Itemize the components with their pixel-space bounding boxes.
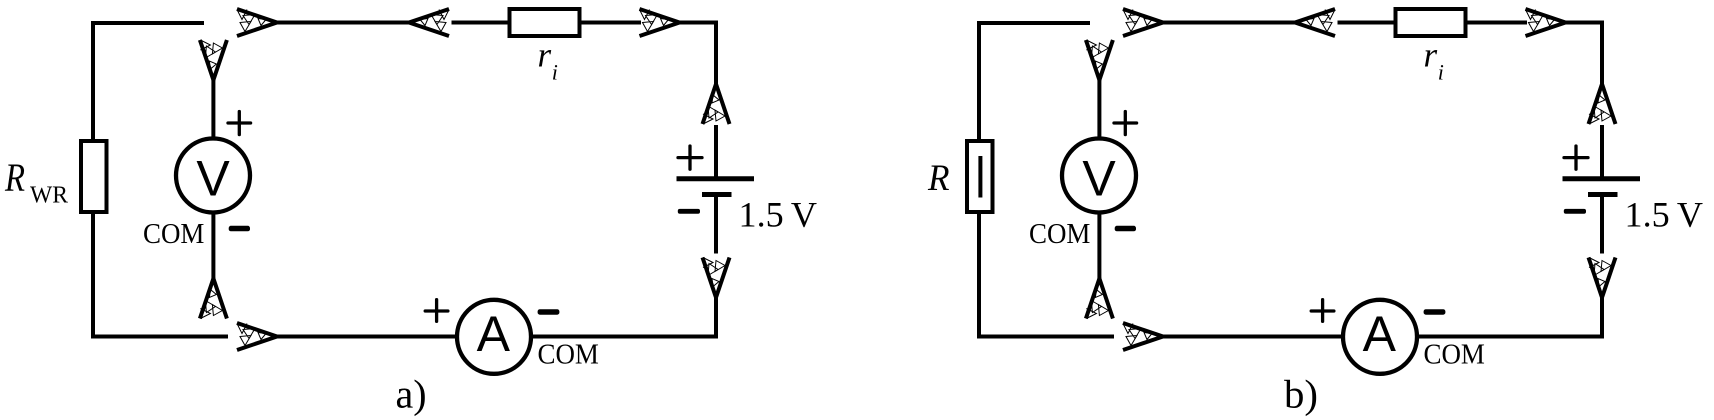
voltmeter V (a) <box>176 139 250 213</box>
arrow plug on top wire (leftward) (b) <box>1295 9 1335 36</box>
arrow plug right vertical (upward) (b) <box>1589 84 1616 124</box>
wire top segment before r_i (a) <box>452 21 510 25</box>
voltmeter minus terminal sign (b) <box>1115 226 1136 232</box>
wire top middle segment (b) <box>1163 21 1295 25</box>
svg-text:1.5 V: 1.5 V <box>1625 194 1704 234</box>
ammeter plus terminal sign (a) <box>425 300 448 322</box>
arrow plug on bottom wire (rightward) (b) <box>1123 323 1163 350</box>
battery plus sign (a) <box>678 146 702 169</box>
ammeter A (a) <box>457 300 531 374</box>
ammeter minus terminal sign (a) <box>538 309 560 315</box>
svg-text:A: A <box>477 306 511 362</box>
svg-text:V: V <box>196 151 230 207</box>
battery negative plate (short) (a) <box>702 192 732 197</box>
battery positive plate (long) (a) <box>677 176 755 181</box>
resistor r_i (internal resistance) (b) <box>1396 9 1466 36</box>
arrow plug right vertical (downward) (a) <box>703 258 730 298</box>
arrow plug right vertical (upward) (a) <box>703 84 730 124</box>
svg-text:r: r <box>538 36 552 75</box>
wire r_i to arrow (a) <box>581 21 641 25</box>
wire top-left segment + left vertical (upper) (b) <box>979 23 1090 142</box>
wire right vertical lower + bottom-right corner (a) <box>531 298 716 337</box>
ammeter A (b) <box>1343 300 1417 374</box>
svg-text:r: r <box>1424 36 1438 75</box>
svg-text:WR: WR <box>30 183 68 209</box>
wire right vertical to battery + (b) <box>1600 125 1604 179</box>
wire battery - downward (a) <box>714 195 718 254</box>
arrow plug top-right (rightward) (a) <box>640 9 680 36</box>
voltmeter plus terminal sign (a) <box>228 112 251 135</box>
wire voltmeter branch lower (a) <box>211 213 215 279</box>
arrow plug on top wire (rightward) (a) <box>237 9 277 36</box>
wire top middle segment (a) <box>277 21 409 25</box>
slider bar inside resistor R (b) <box>978 156 982 198</box>
svg-text:b): b) <box>1284 371 1318 416</box>
svg-text:COM: COM <box>143 219 204 250</box>
ammeter plus terminal sign (b) <box>1311 300 1334 322</box>
wire r_i to arrow (b) <box>1467 21 1527 25</box>
svg-text:COM: COM <box>1424 340 1485 371</box>
battery negative plate (short) (b) <box>1588 192 1618 197</box>
resistor R left branch (b) <box>967 141 993 212</box>
wire voltmeter branch upper (a) <box>211 80 215 140</box>
resistor r_i (internal resistance) (a) <box>510 9 580 36</box>
svg-text:R: R <box>4 155 25 200</box>
arrow plug on top wire (rightward) (b) <box>1123 9 1163 36</box>
wire top-right corner (a) <box>680 23 717 85</box>
wire bottom middle segment (a) <box>277 335 459 339</box>
svg-text:i: i <box>552 59 558 84</box>
voltmeter V (b) <box>1062 139 1136 213</box>
voltmeter plus terminal sign (b) <box>1114 112 1137 135</box>
wire bottom middle segment (b) <box>1163 335 1345 339</box>
battery minus sign (b) <box>1564 209 1586 214</box>
wire voltmeter branch upper (b) <box>1097 80 1101 140</box>
resistor R left branch (a) <box>81 141 107 212</box>
svg-text:COM: COM <box>1029 219 1090 250</box>
svg-text:a): a) <box>396 371 427 416</box>
wire voltmeter branch lower (b) <box>1097 213 1101 279</box>
wire top-right corner (b) <box>1566 23 1603 85</box>
battery positive plate (long) (b) <box>1563 176 1641 181</box>
svg-text:R: R <box>927 158 949 199</box>
arrow plug voltmeter branch top (downward) (a) <box>200 40 227 80</box>
battery minus sign (a) <box>678 209 700 214</box>
arrow plug voltmeter branch bottom (upward) (b) <box>1086 279 1113 319</box>
ammeter minus terminal sign (b) <box>1424 309 1446 315</box>
wire left vertical (lower) + bottom-left segment (b) <box>979 210 1114 337</box>
wire top-left segment + left vertical (upper) (a) <box>93 23 204 142</box>
svg-text:1.5 V: 1.5 V <box>739 194 818 234</box>
svg-text:V: V <box>1082 151 1116 207</box>
arrow plug voltmeter branch top (downward) (b) <box>1086 40 1113 80</box>
voltmeter minus terminal sign (a) <box>229 226 250 232</box>
svg-text:A: A <box>1363 306 1397 362</box>
wire left vertical (lower) + bottom-left segment (a) <box>93 210 228 337</box>
arrow plug on bottom wire (rightward) (a) <box>237 323 277 350</box>
svg-text:COM: COM <box>538 340 599 371</box>
arrow plug right vertical (downward) (b) <box>1589 258 1616 298</box>
wire battery - downward (b) <box>1600 195 1604 254</box>
svg-text:i: i <box>1438 59 1444 84</box>
battery plus sign (b) <box>1564 146 1588 169</box>
arrow plug voltmeter branch bottom (upward) (a) <box>200 279 227 319</box>
arrow plug on top wire (leftward) (a) <box>409 9 449 36</box>
arrow plug top-right (rightward) (b) <box>1526 9 1566 36</box>
wire right vertical lower + bottom-right corner (b) <box>1417 298 1602 337</box>
wire right vertical to battery + (a) <box>714 125 718 179</box>
wire top segment before r_i (b) <box>1338 21 1396 25</box>
